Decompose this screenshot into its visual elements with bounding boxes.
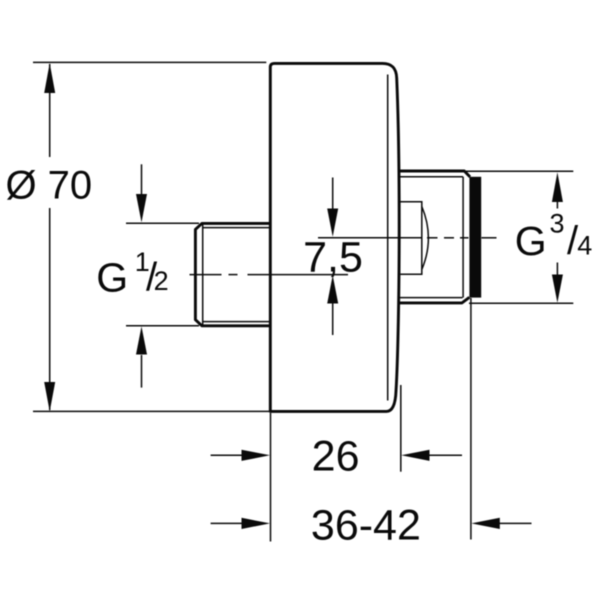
socket bore rectangle (400, 202, 422, 274)
svg-text:36-42: 36-42 (311, 501, 421, 549)
svg-text:7,5: 7,5 (303, 234, 363, 282)
svg-text:G: G (96, 255, 128, 301)
dim 26 extension right (400, 385, 402, 472)
dim G12 arrow upper (141, 164, 143, 196)
dim 3642 arrow left (211, 522, 243, 524)
dim G34 arrow lower (556, 263, 558, 277)
seal ring black (469, 177, 481, 298)
centerline left stub (190, 274, 349, 276)
dim 26 arrow left (211, 454, 243, 456)
dim d70 extension top (33, 61, 266, 63)
left stub thread crest lines (202, 227, 269, 229)
svg-text:2: 2 (154, 266, 169, 296)
dim G34 extension bottom (469, 302, 573, 304)
centerline right stub (318, 237, 497, 239)
svg-text:Ø 70: Ø 70 (5, 163, 92, 207)
dim d70 line lower (49, 208, 51, 410)
right stub G3/4 outline bottom (399, 297, 469, 303)
label G34 (515, 209, 593, 264)
dim G12 arrow lower (141, 355, 143, 388)
dim G34 extension top (465, 170, 573, 172)
dim G12 extension bottom (126, 325, 199, 327)
body face inner line (387, 75, 389, 401)
svg-text:3: 3 (550, 209, 565, 239)
dim 26 extension left (270, 413, 272, 542)
right stub G3/4 outline top (399, 171, 470, 177)
dim 26 arrow right (428, 454, 462, 456)
socket bore spherical seat arc (422, 207, 429, 270)
left stub chamfer line (202, 224, 204, 326)
dim 3642 extension right (470, 298, 472, 540)
svg-text:G: G (515, 218, 547, 264)
dim 3642 arrow right (498, 522, 532, 524)
body escutcheon outline (270, 63, 399, 411)
dim d70 extension bottom (33, 410, 269, 412)
dim G12 extension top (126, 222, 199, 224)
dim d70 arrow down (44, 382, 55, 412)
dim 75 arrow upper (332, 178, 334, 212)
dim d70 line upper (49, 64, 51, 157)
label G12 (96, 247, 168, 301)
right stub chamfer face line (462, 177, 464, 298)
right stub thread crest lines (399, 176, 463, 178)
dim d70 arrow up (44, 63, 55, 93)
dim G34 arrow upper (556, 200, 558, 209)
left stub G1/2 thread outline (195, 223, 270, 325)
svg-text:4: 4 (577, 230, 592, 260)
svg-text:26: 26 (312, 433, 360, 481)
dim 75 arrow lower (332, 302, 334, 335)
